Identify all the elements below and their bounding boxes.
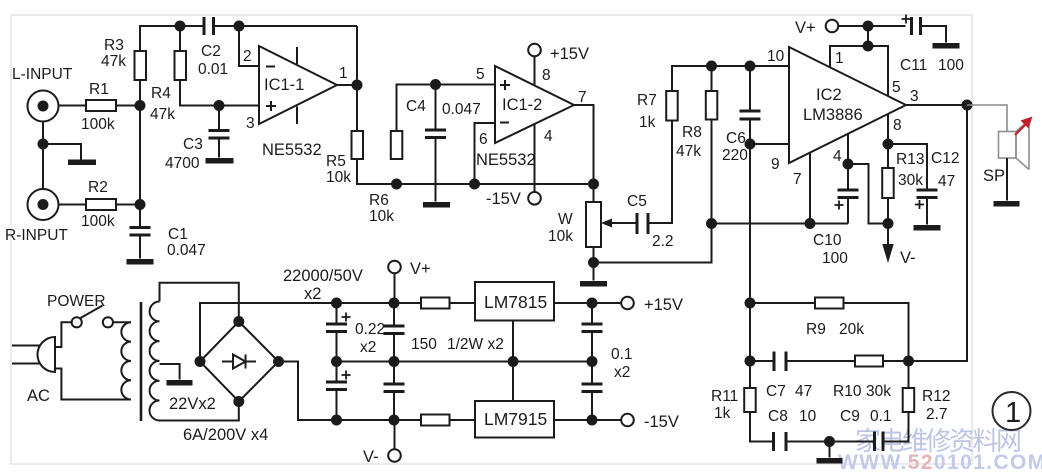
node mix-L (136, 101, 145, 110)
node W-bottom (589, 258, 598, 267)
diode (222, 355, 256, 369)
svg-text:R10: R10 (833, 383, 862, 400)
ground (423, 202, 450, 208)
wire (786, 441, 875, 443)
svg-text:C9: C9 (840, 408, 860, 425)
op-amp IC1-1 (259, 46, 337, 124)
wire (42, 122, 44, 190)
svg-text:8: 8 (893, 117, 902, 134)
plus sign IC1-2 (500, 80, 510, 90)
svg-text:10: 10 (767, 48, 785, 65)
node -15-cap (588, 416, 597, 425)
resistor R1 (86, 100, 116, 111)
svg-text:NE5532: NE5532 (262, 141, 322, 159)
capacitor C3 (209, 106, 230, 158)
svg-text:6: 6 (479, 131, 488, 148)
node pin9 (746, 140, 755, 149)
svg-text:100: 100 (938, 57, 964, 74)
svg-text:100k: 100k (81, 213, 115, 230)
svg-text:R-INPUT: R-INPUT (5, 227, 68, 244)
node cap1-bot (332, 416, 341, 425)
svg-text:3: 3 (246, 115, 255, 132)
svg-text:7: 7 (793, 171, 802, 188)
wire (475, 123, 497, 184)
pin stub (296, 47, 298, 65)
wiper arrow W (601, 219, 637, 228)
svg-text:1: 1 (339, 65, 348, 82)
svg-text:C12: C12 (931, 150, 959, 167)
regulator ground wire (512, 321, 514, 402)
capacitor C12 (888, 144, 938, 225)
svg-text:R1: R1 (89, 81, 109, 98)
svg-text:0.047: 0.047 (442, 101, 481, 118)
svg-text:4: 4 (833, 148, 842, 165)
wire (867, 26, 869, 46)
node input-common (39, 140, 48, 149)
node pin7-gnd (806, 219, 815, 228)
AC plug (38, 337, 56, 372)
node R4-top (176, 22, 185, 31)
minus sign IC1-2 (500, 122, 509, 124)
node bridge-top (234, 317, 243, 326)
svg-text:10k: 10k (326, 169, 351, 186)
wire (1006, 158, 1008, 201)
wire (909, 105, 968, 361)
capacitor 0.22 upper (384, 303, 405, 362)
capacitor 0.1 lower (582, 362, 603, 421)
svg-text:C5: C5 (627, 193, 647, 210)
wire to speaker (967, 105, 1007, 131)
svg-text:SP: SP (983, 167, 1005, 185)
node mid3 (509, 357, 518, 366)
svg-text:220: 220 (722, 147, 748, 164)
plus sign IC1-1 (266, 101, 276, 111)
node bridge-left (196, 357, 205, 366)
node V+rail (864, 22, 873, 31)
svg-text:4: 4 (544, 128, 553, 145)
wire (394, 420, 396, 449)
svg-text:L-INPUT: L-INPUT (12, 66, 73, 83)
svg-text:3: 3 (910, 88, 919, 105)
wire (574, 105, 594, 184)
svg-text:5: 5 (476, 66, 485, 83)
node C6-top (746, 62, 755, 71)
capacitor C2 (204, 17, 214, 35)
terminal -15V (528, 192, 541, 205)
svg-text:1: 1 (1005, 397, 1021, 429)
capacitor C8 (774, 432, 787, 451)
node R13-bottom (884, 219, 893, 228)
svg-text:V-: V- (900, 249, 916, 267)
wire (140, 26, 204, 51)
wire (750, 412, 774, 442)
op-amp IC1-2 (495, 66, 574, 143)
op-amp IC2 (789, 47, 906, 163)
node bridge-bottom (234, 397, 243, 406)
svg-text:0.047: 0.047 (167, 242, 206, 259)
minus sign IC1-1 (266, 66, 275, 68)
circled 1 (993, 392, 1031, 430)
svg-text:2.2: 2.2 (652, 233, 674, 250)
svg-text:47k: 47k (150, 106, 175, 123)
wire (829, 442, 831, 458)
node mid2 (390, 357, 399, 366)
node pin6-branch (470, 180, 479, 189)
capacitor C4 (425, 85, 446, 202)
pin 4 wire (847, 134, 849, 164)
ground (914, 225, 941, 231)
terminal +15V (621, 297, 634, 310)
capacitor 22000/50V lower (326, 362, 347, 421)
svg-text:-15V: -15V (644, 413, 679, 431)
capacitor C6 (740, 66, 761, 144)
L input jack (28, 91, 59, 122)
svg-text:C6: C6 (726, 130, 746, 147)
svg-text:LM3886: LM3886 (803, 106, 863, 124)
svg-text:V-: V- (363, 448, 379, 466)
wire (450, 419, 476, 421)
node gnd-fb (825, 437, 834, 446)
ground (127, 259, 154, 265)
center tap wire (160, 364, 180, 380)
wire (394, 273, 396, 303)
svg-text:150: 150 (411, 336, 437, 353)
wire (337, 84, 357, 86)
resistor R9 (815, 298, 844, 309)
wire (593, 247, 595, 263)
resistor R7 (666, 91, 678, 121)
svg-text:R3: R3 (104, 37, 124, 54)
svg-text:C3: C3 (183, 136, 203, 153)
wire (750, 360, 774, 362)
capacitor C5 (637, 213, 648, 234)
node pin4 (844, 160, 853, 169)
capacitor 22000/50V upper (326, 303, 347, 362)
capacitor C9 (875, 432, 884, 452)
wire (116, 204, 140, 206)
speaker SP (999, 120, 1030, 170)
R input jack (28, 189, 59, 220)
svg-text:LM7915: LM7915 (484, 409, 547, 429)
resistor R2 (86, 199, 116, 210)
svg-text:C7: C7 (766, 383, 786, 400)
svg-text:+15V: +15V (644, 296, 683, 314)
svg-text:WWW.520101.COM: WWW.520101.COM (838, 451, 1042, 472)
svg-text:NE5532: NE5532 (476, 151, 536, 169)
wire (750, 302, 815, 304)
svg-text:R6: R6 (369, 192, 389, 209)
svg-text:LM7815: LM7815 (484, 292, 547, 312)
wire (214, 25, 358, 27)
wire (160, 283, 239, 322)
wire (59, 105, 87, 107)
pin 1 wire (830, 46, 888, 97)
svg-text:22Vx2: 22Vx2 (169, 395, 216, 413)
ground (817, 458, 843, 464)
capacitor 0.22 lower (384, 362, 405, 421)
wire (116, 105, 140, 107)
plus sign (342, 313, 351, 322)
wire (239, 26, 260, 66)
node R9-left (746, 299, 755, 308)
ground (68, 160, 96, 166)
node cap1-top (332, 299, 341, 308)
svg-text:0.22: 0.22 (355, 321, 385, 338)
node +15-cap (588, 299, 597, 308)
svg-text:R5: R5 (326, 153, 346, 170)
plug prong (12, 363, 41, 365)
wire (908, 361, 910, 388)
node R8-gnd (707, 219, 716, 228)
terminal V+ (826, 20, 839, 33)
pin stub (296, 107, 298, 125)
svg-text:0.1: 0.1 (611, 346, 633, 363)
svg-text:1: 1 (835, 50, 844, 67)
wire (672, 66, 790, 91)
switch POWER (72, 306, 113, 328)
node IC1-1-out (353, 81, 362, 90)
resistor 150 upper (421, 298, 450, 309)
node cap2-bot (390, 416, 399, 425)
svg-text:R12: R12 (922, 388, 950, 405)
node pin1-V+ (864, 42, 873, 51)
resistor R12 (903, 388, 915, 412)
svg-text:2: 2 (243, 48, 252, 65)
svg-text:47k: 47k (101, 53, 126, 70)
svg-text:W: W (558, 211, 573, 228)
red arrow (1015, 117, 1033, 136)
wire (883, 412, 909, 442)
svg-text:100k: 100k (81, 116, 115, 133)
svg-text:10k: 10k (548, 228, 573, 245)
svg-text:47: 47 (795, 383, 812, 400)
svg-text:9: 9 (771, 156, 780, 173)
transformer primary (121, 322, 131, 399)
svg-text:x2: x2 (360, 339, 376, 356)
mid ground rail (337, 361, 593, 363)
resistor R5 (352, 131, 364, 159)
potentiometer W (586, 202, 601, 247)
svg-text:-15V: -15V (486, 190, 521, 208)
node R6-bottom (392, 180, 401, 189)
wire (356, 85, 358, 131)
svg-text:10k: 10k (369, 208, 394, 225)
node mid4 (588, 357, 597, 366)
svg-text:30k: 30k (866, 383, 891, 400)
svg-text:1k: 1k (639, 114, 656, 131)
node C4-top (431, 80, 440, 89)
node C7-left (746, 357, 755, 366)
svg-text:IC1-2: IC1-2 (502, 96, 542, 114)
svg-text:C2: C2 (201, 43, 221, 60)
wire (139, 235, 141, 259)
plus sign (342, 371, 351, 380)
ground rail wire (712, 223, 849, 225)
resistor 150 lower (421, 415, 450, 426)
pin 7 wire (809, 153, 811, 224)
ground (206, 158, 234, 164)
wire (450, 302, 476, 304)
wire (593, 263, 595, 281)
terminal V+ (388, 261, 401, 274)
svg-text:1/2W x2: 1/2W x2 (447, 336, 504, 353)
wire (179, 26, 181, 51)
svg-text:R9: R9 (806, 321, 826, 338)
wire (55, 369, 131, 400)
bridge rectifier (200, 322, 279, 402)
capacitor C7 (774, 352, 786, 372)
svg-text:C11: C11 (900, 57, 927, 74)
transformer secondary (150, 302, 160, 421)
wire (55, 322, 72, 347)
regulator LM7915 (475, 401, 554, 438)
svg-text:100: 100 (822, 250, 848, 267)
wire (887, 198, 889, 244)
node C12-branch (884, 140, 893, 149)
V- arrow (882, 244, 893, 263)
svg-text:10: 10 (799, 408, 817, 425)
svg-text:20k: 20k (839, 321, 864, 338)
plug prong (12, 345, 40, 347)
wire (279, 362, 422, 421)
resistor R13 (882, 168, 894, 198)
svg-text:R13: R13 (896, 151, 924, 168)
svg-text:R11: R11 (711, 388, 738, 405)
wire (200, 303, 421, 362)
svg-text:5: 5 (892, 79, 901, 96)
wire (883, 360, 909, 362)
pin 3 output wire (906, 104, 967, 106)
svg-text:22000/50V: 22000/50V (283, 267, 363, 285)
svg-text:47k: 47k (676, 143, 701, 160)
pin 8 wire (887, 114, 889, 144)
terminal V- (388, 449, 401, 462)
capacitor C10 (838, 164, 859, 224)
svg-text:x2: x2 (614, 364, 630, 381)
svg-text:AC: AC (27, 387, 50, 405)
node output (963, 101, 972, 110)
wire (711, 66, 713, 91)
svg-text:R7: R7 (637, 92, 657, 109)
wire (180, 80, 260, 106)
svg-text:C8: C8 (768, 408, 788, 425)
node mix-R (136, 200, 145, 209)
pin 8 wire (534, 57, 536, 86)
svg-text:30k: 30k (898, 172, 923, 189)
capacitor C11 (912, 17, 921, 35)
svg-text:C10: C10 (813, 232, 842, 249)
svg-text:R2: R2 (88, 179, 108, 196)
svg-text:47: 47 (938, 173, 955, 190)
capacitor 0.1 upper (582, 303, 603, 362)
svg-text:R4: R4 (151, 85, 171, 102)
terminal +15V (528, 44, 541, 57)
wire (838, 25, 905, 27)
node mid1 (332, 357, 341, 366)
wire (593, 184, 595, 202)
wire (594, 120, 712, 263)
wire (749, 144, 751, 388)
svg-text:7: 7 (578, 89, 587, 106)
node R8-top (707, 62, 716, 71)
ground (580, 281, 607, 287)
resistor R11 (744, 388, 756, 412)
svg-text:C1: C1 (168, 226, 188, 243)
svg-text:0.01: 0.01 (198, 61, 228, 78)
svg-text:x2: x2 (304, 285, 321, 303)
ground (994, 201, 1020, 207)
node fb (904, 357, 913, 366)
transformer core (140, 302, 143, 421)
node cap2-top (390, 299, 399, 308)
svg-text:IC2: IC2 (816, 86, 842, 104)
svg-text:IC1-1: IC1-1 (264, 76, 304, 94)
node W-top (589, 180, 598, 189)
resistor R6 (391, 131, 403, 159)
svg-text:R8: R8 (682, 124, 702, 141)
svg-text:2.7: 2.7 (926, 406, 948, 423)
plus sign C11 (902, 15, 911, 24)
wire (554, 302, 621, 304)
regulator LM7815 (475, 282, 554, 321)
wire (139, 80, 141, 226)
wire (887, 144, 889, 168)
pin 4 wire (534, 124, 536, 192)
ground (933, 43, 960, 49)
wire (921, 26, 947, 43)
svg-text:0.1: 0.1 (870, 408, 892, 425)
capacitor C1 (130, 228, 151, 236)
terminal -15V (621, 414, 634, 427)
svg-text:C4: C4 (406, 98, 426, 115)
wire (648, 121, 672, 224)
resistor R8 (706, 91, 718, 120)
svg-text:V+: V+ (795, 19, 816, 37)
resistor R3 (135, 51, 147, 80)
ground (167, 380, 193, 386)
node pin2-branch (235, 22, 244, 31)
svg-text:8: 8 (542, 67, 551, 84)
wire (750, 143, 790, 145)
svg-text:V+: V+ (410, 260, 431, 278)
node C3-top (215, 101, 224, 110)
plus sign C12 (915, 200, 924, 209)
svg-text:1k: 1k (714, 405, 731, 422)
svg-text:4700: 4700 (165, 155, 200, 172)
wire (786, 360, 855, 362)
wire (43, 144, 81, 160)
wire (397, 85, 497, 132)
resistor R4 (175, 51, 187, 80)
wire (113, 321, 131, 323)
svg-text:POWER: POWER (47, 293, 106, 310)
wire (554, 419, 621, 421)
wire (356, 26, 358, 85)
plus sign C10 (835, 201, 844, 210)
node bridge-right (274, 357, 283, 366)
svg-text:+15V: +15V (550, 45, 589, 63)
wire (844, 303, 909, 361)
resistor R10 (855, 356, 883, 367)
wire (160, 402, 239, 421)
wire (357, 159, 594, 184)
wire (59, 204, 87, 206)
wire (848, 164, 883, 224)
svg-text:6A/200V x4: 6A/200V x4 (183, 426, 268, 444)
